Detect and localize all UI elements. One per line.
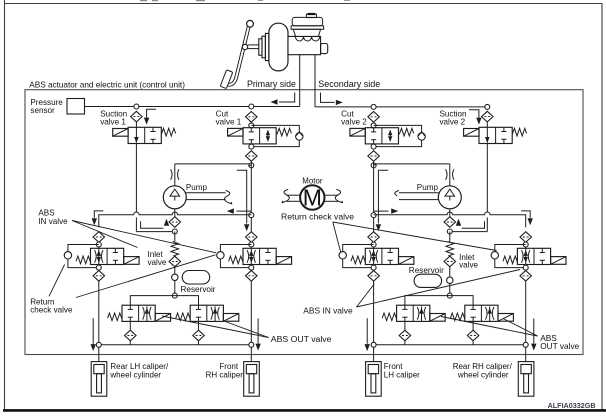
ABS IN valve RH2 solenoid box bbox=[551, 257, 566, 265]
wire suction valve 2 down-line to pump inlet bbox=[486, 144, 488, 213]
svg-text:sensor: sensor bbox=[30, 106, 55, 115]
svg-text:IN valve: IN valve bbox=[38, 217, 68, 226]
node OUT bus RH junction bbox=[447, 293, 452, 298]
solenoid valve ABS IN valve LH2 (ABS IN valve body) bbox=[243, 248, 276, 264]
filter suction valve 1 inlet filter bbox=[131, 111, 143, 122]
pump LH return flow arrow bbox=[237, 210, 252, 212]
inlet valve LH spring bbox=[171, 242, 179, 256]
node suction valve 1 bus tap bbox=[134, 104, 139, 109]
filter ABS IN valve RH1 inlet filter bbox=[368, 232, 380, 243]
wire into IN valve LH1 bbox=[98, 242, 100, 248]
solenoid valve suction valve 2 (2/2 suction valve, solenoid box) bbox=[464, 129, 479, 137]
reservoir RH bbox=[414, 274, 442, 287]
ABS IN valve LH2 return spring bbox=[229, 256, 243, 264]
filter cut valve 1 upper filter bbox=[246, 112, 257, 123]
wire caliper return bus LH bbox=[99, 344, 252, 346]
brake caliper front RH bbox=[244, 362, 260, 397]
filter OUT valve RH2 outlet filter bbox=[467, 330, 479, 341]
filter suction valve 2 inlet filter bbox=[482, 111, 494, 122]
ABS IN valve LH1 bypass return check valve loop bbox=[68, 245, 99, 268]
check valve ball return check valve at ABS IN valve LH2 bbox=[217, 252, 224, 259]
node cut valve 1 delivery junction bbox=[249, 213, 254, 218]
node cut valve 1 upper port bbox=[249, 123, 254, 128]
solenoid valve ABS OUT valve LH2 (ABS OUT valve body) bbox=[190, 305, 223, 321]
suction valve 2 inlet hook arrow bbox=[469, 110, 479, 118]
wire pump RH top to cut valve 2 junction bbox=[376, 163, 450, 165]
motor linkage left (torn) bbox=[287, 194, 301, 196]
svg-text:Pump: Pump bbox=[186, 183, 208, 192]
svg-text:Reservoir: Reservoir bbox=[409, 266, 444, 275]
label pointer lines: ABS IN valve (left) bbox=[72, 221, 138, 248]
wire primary bus bbox=[85, 106, 300, 108]
wire secondary bus bbox=[315, 106, 487, 108]
pump LH drive linkage (torn) bbox=[186, 192, 226, 194]
pump RH return flow arrow bbox=[374, 210, 389, 212]
filter pump RH outlet filter bbox=[444, 217, 456, 228]
solenoid valve ABS IN valve RH2 (ABS IN valve body) bbox=[517, 248, 550, 264]
svg-text:Primary side: Primary side bbox=[247, 79, 296, 89]
svg-text:ABS actuator and electric unit: ABS actuator and electric unit (control … bbox=[29, 80, 185, 89]
node cut valve 2 / pump junction bbox=[371, 163, 376, 168]
reservoir LH bbox=[182, 271, 210, 285]
node cut valve 1 bus tap bbox=[249, 104, 254, 109]
svg-text:valve 2: valve 2 bbox=[341, 117, 367, 126]
node IN valve RH2 lower port bbox=[523, 265, 528, 270]
ABS OUT valve RH1 solenoid box bbox=[430, 314, 445, 322]
svg-text:ABS IN valve: ABS IN valve bbox=[303, 306, 353, 316]
wire delivery line y=215 right (hops over pump and suction columns) bbox=[374, 212, 526, 227]
svg-text:M: M bbox=[303, 185, 322, 211]
reservoir lower body bbox=[293, 29, 320, 36]
node cut valve 2 delivery junction bbox=[371, 213, 376, 218]
ABS IN valve RH1 return spring bbox=[351, 256, 365, 264]
wire pump RH top port bbox=[449, 164, 451, 186]
node OUT bus LH junction bbox=[172, 293, 177, 298]
node cut valve 1 lower port bbox=[249, 144, 254, 149]
flow arrow into rear LH caliper bbox=[92, 318, 94, 344]
secondary flow hook arrow bbox=[321, 93, 335, 103]
pump LH inlet up-arrow hook bbox=[141, 221, 164, 228]
wire IN valve RH1 to front LH caliper bbox=[373, 281, 375, 362]
solenoid valve ABS OUT valve RH1 (ABS OUT valve body) bbox=[397, 305, 430, 321]
ABS IN valve RH1 solenoid box bbox=[399, 257, 414, 265]
filter ABS IN valve LH1 inlet filter bbox=[93, 232, 105, 243]
primary flow hook arrow bbox=[279, 93, 295, 103]
svg-text:ABS OUT valve: ABS OUT valve bbox=[271, 334, 332, 344]
filter ABS IN valve LH1 outlet filter bbox=[93, 271, 105, 282]
ABS IN valve RH1 bypass return check valve loop bbox=[343, 245, 374, 268]
wire inlet valve to reservoir junction bbox=[174, 267, 176, 294]
motor M bbox=[300, 185, 324, 209]
wire pump RH bottom port bbox=[449, 209, 451, 217]
svg-text:RH caliper: RH caliper bbox=[206, 370, 244, 379]
suction valve 2 return spring bbox=[512, 128, 526, 136]
wire pump LH suction column bbox=[174, 232, 176, 242]
node IN valve RH2 upper port bbox=[523, 242, 528, 247]
svg-text:valve: valve bbox=[459, 261, 478, 270]
node front LH caliper junction bbox=[371, 342, 376, 347]
reservoir tank bbox=[291, 26, 324, 30]
ABS IN valve RH2 bypass return check valve loop bbox=[495, 245, 526, 268]
node suction valve 2 bus tap bbox=[485, 104, 490, 109]
suction valve 1 return spring bbox=[161, 128, 175, 136]
node IN valve RH1 lower port bbox=[371, 265, 376, 270]
check valve ball cut valve 2 bypass bbox=[418, 133, 425, 140]
ABS IN valve LH1 return spring bbox=[76, 256, 90, 264]
ABS OUT valve RH1 return spring bbox=[382, 313, 396, 321]
ABS OUT valve LH2 return spring bbox=[176, 313, 190, 321]
check valve ball return check valve at ABS IN valve RH2 bbox=[491, 252, 498, 259]
cut valve 2 body bbox=[365, 128, 398, 144]
wire cut valve 1 column down bbox=[250, 161, 252, 213]
wire caliper return bus RH bbox=[374, 344, 526, 346]
solenoid valve ABS IN valve RH1 (ABS IN valve body) bbox=[365, 248, 398, 264]
pump RH drive linkage (torn) bbox=[399, 192, 439, 194]
solenoid valve ABS IN valve LH1 (ABS IN valve body) bbox=[91, 248, 124, 264]
suction valve 2 body bbox=[479, 127, 512, 143]
node cut valve 1 / pump junction bbox=[249, 163, 254, 168]
svg-text:Reservoir: Reservoir bbox=[181, 285, 216, 294]
check valve ball return check valve at ABS IN valve LH1 bbox=[64, 252, 71, 259]
cut valve 2 bypass loop bbox=[374, 125, 422, 146]
svg-text:wheel cylinder: wheel cylinder bbox=[109, 370, 161, 379]
suction valve 1 inlet hook arrow bbox=[147, 109, 157, 117]
brake booster body bbox=[269, 23, 288, 71]
booster push rod bbox=[248, 44, 259, 46]
wire primary side line from master cylinder bbox=[299, 55, 301, 107]
wire suction valve 1 down-line to pump inlet bbox=[135, 144, 137, 213]
ABS OUT valve LH1 return spring bbox=[108, 313, 122, 321]
node IN valve LH1 upper port bbox=[96, 242, 101, 247]
filter ABS IN valve RH2 inlet filter bbox=[520, 232, 532, 243]
cut valve 2 return spring bbox=[399, 128, 413, 136]
filter pump LH outlet filter bbox=[169, 217, 181, 228]
cut valve 1 bypass loop bbox=[251, 125, 299, 146]
master cylinder end cap bbox=[321, 44, 328, 54]
cropped text fragments at very top bbox=[140, 0, 147, 1]
svg-text:Secondary side: Secondary side bbox=[318, 79, 380, 89]
pump pump RH bbox=[438, 186, 461, 209]
node IN valve LH2 lower port bbox=[249, 265, 254, 270]
svg-text:check valve: check valve bbox=[30, 305, 73, 314]
filter OUT valve LH2 outlet filter bbox=[193, 330, 205, 341]
node pump LH outlet junction bbox=[172, 229, 177, 234]
wire OUT valve LH2 to return line bbox=[198, 321, 200, 330]
wire pump LH top to cut valve 1 junction bbox=[175, 163, 249, 165]
svg-text:ALFIA0332GB: ALFIA0332GB bbox=[548, 401, 596, 410]
filter cut valve 2 lower filter bbox=[368, 151, 380, 162]
ABS IN valve LH2 bypass return check valve loop bbox=[220, 245, 251, 268]
filter inlet valve LH filter bbox=[169, 256, 181, 267]
reservoir cap bbox=[306, 14, 316, 17]
svg-text:valve 1: valve 1 bbox=[100, 117, 126, 126]
wire filter to suction valve 1 bbox=[135, 122, 137, 128]
pump LH inlet pulsation marks bbox=[171, 169, 173, 179]
wire secondary side line from master cylinder bbox=[314, 55, 316, 107]
filter ABS IN valve LH2 outlet filter bbox=[246, 271, 257, 282]
ABS OUT valve RH2 solenoid box bbox=[498, 314, 513, 322]
solenoid valve cut valve 1 (2/2 cut valve, solenoid box) bbox=[228, 128, 243, 136]
wire delivery line y=215 (hops over pump and suction columns) bbox=[99, 212, 252, 227]
node rear LH caliper junction bbox=[96, 342, 101, 347]
check valve ball return check valve at ABS IN valve RH1 bbox=[339, 252, 346, 259]
flow arrow into rear RH caliper bbox=[533, 318, 535, 343]
svg-text:Pump: Pump bbox=[417, 183, 439, 192]
flow arrow into front LH caliper bbox=[366, 318, 368, 344]
svg-text:wheel cylinder: wheel cylinder bbox=[457, 370, 509, 379]
ABS actuator control-unit box bbox=[25, 90, 583, 355]
pump RH inlet up-arrow hook bbox=[462, 221, 485, 228]
node cut valve 2 bus tap bbox=[371, 104, 376, 109]
wire OUT valve LH1 to return line bbox=[129, 321, 131, 330]
brake pedal arm bbox=[226, 27, 249, 85]
svg-text:valve 1: valve 1 bbox=[216, 117, 242, 126]
brake caliper front LH bbox=[366, 362, 382, 397]
filter ABS IN valve RH1 outlet filter bbox=[368, 271, 380, 282]
pedal pivot bbox=[247, 20, 254, 27]
ABS IN valve RH2 return spring bbox=[503, 256, 517, 264]
master cylinder body bbox=[288, 36, 321, 54]
pressure sensor bbox=[67, 99, 85, 115]
reservoir RH port circle bbox=[447, 277, 453, 283]
filter ABS IN valve LH2 inlet filter bbox=[246, 232, 257, 243]
ABS OUT valve LH2 solenoid box bbox=[223, 314, 238, 322]
node IN valve LH1 lower port bbox=[96, 265, 101, 270]
flow arrow into front RH caliper bbox=[257, 318, 259, 343]
node IN valve RH1 upper port bbox=[371, 242, 376, 247]
wire IN valve RH2 to rear RH caliper bbox=[525, 281, 527, 362]
brake pedal pad bbox=[220, 70, 232, 89]
solenoid valve cut valve 2 (2/2 cut valve, solenoid box) bbox=[350, 128, 365, 136]
wire ABS OUT bus LH bbox=[130, 296, 198, 306]
wire IN valve LH2 to front RH caliper bbox=[250, 281, 252, 362]
brake caliper rear RH bbox=[518, 362, 534, 397]
svg-text:LH caliper: LH caliper bbox=[384, 370, 420, 379]
motor linkage right (torn) bbox=[325, 194, 339, 196]
solenoid valve suction valve 1 (2/2 suction valve, solenoid box) bbox=[113, 129, 128, 137]
cut valve 1 return spring bbox=[277, 128, 291, 136]
wire IN valve LH1 to rear LH caliper bbox=[98, 281, 100, 362]
brake booster plates bbox=[259, 39, 262, 55]
node front RH caliper junction bbox=[249, 342, 254, 347]
node IN valve LH2 upper port bbox=[249, 242, 254, 247]
suction valve 1 body bbox=[128, 127, 161, 143]
pump RH inlet pulsation marks bbox=[446, 169, 448, 179]
filter OUT valve RH1 outlet filter bbox=[399, 330, 411, 341]
pedal clevis joint bbox=[242, 44, 247, 49]
node cut valve 2 upper port bbox=[371, 123, 376, 128]
ABS OUT valve LH1 solenoid box bbox=[155, 314, 170, 322]
solenoid valve ABS OUT valve RH2 (ABS OUT valve body) bbox=[465, 305, 498, 321]
ABS IN valve LH2 solenoid box bbox=[276, 257, 291, 265]
node pump RH outlet junction bbox=[447, 229, 452, 234]
filter cut valve 1 lower filter bbox=[246, 151, 257, 162]
node cut valve 2 lower port bbox=[371, 144, 376, 149]
pump pump LH bbox=[163, 186, 186, 209]
wire cut valve 1 column to IN-valve 2 bbox=[250, 217, 252, 232]
svg-text:Return check valve: Return check valve bbox=[281, 212, 354, 222]
check valve ball cut valve 1 bypass bbox=[296, 133, 303, 140]
svg-text:valve 2: valve 2 bbox=[440, 117, 466, 126]
brake caliper rear LH bbox=[91, 362, 107, 397]
wire pump LH top port bbox=[174, 164, 176, 186]
ABS OUT valve RH2 return spring bbox=[450, 313, 464, 321]
cut valve 1 body bbox=[243, 128, 276, 144]
reservoir LH port circle bbox=[172, 274, 178, 280]
solenoid valve ABS OUT valve LH1 (ABS OUT valve body) bbox=[122, 305, 155, 321]
svg-text:Motor: Motor bbox=[302, 176, 323, 185]
filter ABS IN valve RH2 outlet filter bbox=[520, 271, 532, 282]
ABS IN valve LH1 solenoid box bbox=[124, 257, 139, 265]
svg-text:OUT valve: OUT valve bbox=[540, 341, 579, 351]
pump LH inner flow hook bbox=[237, 170, 247, 223]
inlet valve RH spring bbox=[446, 242, 454, 256]
svg-text:valve: valve bbox=[148, 258, 167, 267]
wire pump RH suction column bbox=[449, 232, 451, 242]
pump RH inner flow hook bbox=[378, 170, 388, 223]
ABS IN valve RH2 inlet hook arrow bbox=[521, 211, 530, 218]
filter cut valve 2 upper filter bbox=[368, 112, 380, 123]
wire ABS OUT bus RH bbox=[405, 296, 473, 306]
wire pump LH bottom port bbox=[174, 209, 176, 217]
node rear RH caliper junction bbox=[523, 342, 528, 347]
filter inlet valve RH filter bbox=[444, 256, 456, 267]
ABS IN valve LH1 inlet hook arrow bbox=[94, 211, 103, 218]
filter OUT valve LH1 outlet filter bbox=[125, 330, 137, 341]
